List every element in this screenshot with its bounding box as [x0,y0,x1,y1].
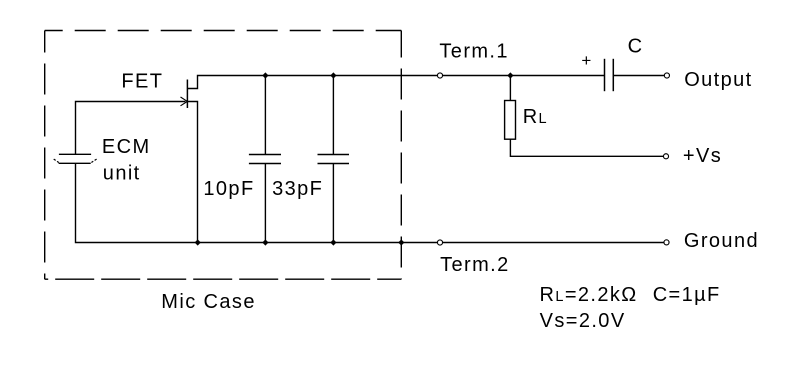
svg-text:Ground: Ground [684,230,759,252]
svg-text:Output: Output [684,69,752,91]
svg-text:+: + [581,51,592,70]
svg-text:Mic Case: Mic Case [161,291,256,313]
svg-text:+Vs: +Vs [683,145,722,167]
svg-text:unit: unit [103,163,141,185]
svg-text:C=1µF: C=1µF [653,284,721,306]
svg-text:Vs=2.0V: Vs=2.0V [540,310,626,332]
svg-text:FET: FET [121,71,163,93]
svg-text:33pF: 33pF [272,178,323,200]
svg-text:Term.1: Term.1 [439,41,509,63]
svg-text:C: C [628,36,644,58]
svg-text:10pF: 10pF [203,178,254,200]
svg-text:RL=2.2kΩ: RL=2.2kΩ [540,284,638,306]
svg-text:ECM: ECM [102,136,151,158]
svg-text:Term.2: Term.2 [440,254,510,276]
